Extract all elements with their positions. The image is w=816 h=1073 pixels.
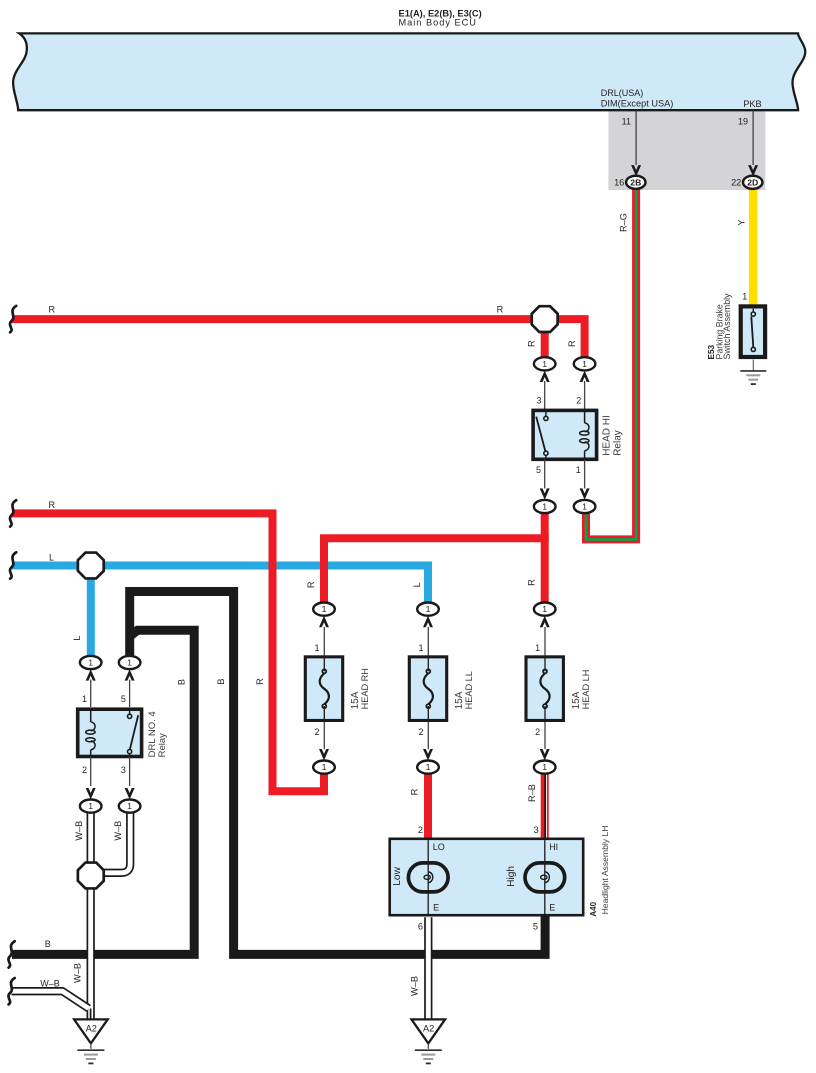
svg-text:1: 1: [542, 502, 547, 512]
svg-text:R: R: [497, 305, 504, 315]
svg-text:R–G: R–G: [618, 213, 628, 232]
svg-text:HEAD LH: HEAD LH: [581, 670, 591, 710]
svg-text:HEAD HI: HEAD HI: [602, 415, 613, 456]
svg-text:1: 1: [127, 801, 132, 811]
svg-text:DRL NO. 4: DRL NO. 4: [147, 711, 158, 757]
svg-text:2: 2: [535, 727, 540, 737]
svg-text:1: 1: [418, 643, 423, 653]
svg-text:E: E: [433, 903, 439, 913]
svg-text:3: 3: [534, 825, 539, 835]
svg-text:1: 1: [314, 643, 319, 653]
svg-text:1: 1: [542, 604, 547, 614]
svg-text:16: 16: [614, 177, 624, 187]
svg-text:6: 6: [418, 922, 423, 932]
svg-text:Y: Y: [736, 219, 746, 225]
svg-text:R: R: [255, 678, 265, 685]
svg-text:R: R: [527, 340, 537, 347]
svg-text:R–B: R–B: [527, 784, 537, 802]
svg-text:2B: 2B: [630, 177, 641, 187]
svg-text:2: 2: [418, 825, 423, 835]
svg-text:DRL(USA): DRL(USA): [601, 88, 644, 98]
svg-text:3: 3: [536, 396, 541, 406]
svg-text:Low: Low: [392, 866, 403, 885]
svg-text:1: 1: [426, 604, 431, 614]
svg-text:W–B: W–B: [113, 821, 123, 841]
svg-text:W–B: W–B: [40, 978, 60, 988]
svg-text:19: 19: [738, 116, 748, 126]
svg-text:2: 2: [418, 727, 423, 737]
svg-text:5: 5: [536, 465, 541, 475]
svg-text:B: B: [177, 679, 187, 685]
svg-text:2: 2: [314, 727, 319, 737]
svg-text:3: 3: [121, 765, 126, 775]
svg-text:A40: A40: [589, 901, 598, 916]
svg-text:R: R: [409, 788, 419, 795]
svg-text:1: 1: [88, 801, 93, 811]
svg-text:1: 1: [322, 762, 327, 772]
svg-text:1: 1: [582, 359, 587, 369]
svg-text:1: 1: [88, 658, 93, 668]
svg-text:Headlight Assembly LH: Headlight Assembly LH: [600, 826, 610, 915]
svg-text:Main Body ECU: Main Body ECU: [399, 17, 477, 27]
svg-text:R: R: [48, 305, 55, 315]
svg-text:1: 1: [576, 465, 581, 475]
svg-text:W–B: W–B: [72, 963, 82, 983]
svg-text:1: 1: [542, 762, 547, 772]
svg-text:2: 2: [576, 396, 581, 406]
svg-text:R: R: [306, 581, 316, 588]
svg-text:A2: A2: [423, 1024, 434, 1034]
svg-text:11: 11: [622, 116, 631, 126]
svg-text:A2: A2: [86, 1024, 97, 1034]
svg-text:L: L: [72, 635, 82, 640]
svg-text:B: B: [216, 678, 226, 684]
svg-text:1: 1: [127, 658, 132, 668]
svg-text:Relay: Relay: [157, 733, 168, 758]
svg-text:1: 1: [82, 694, 87, 704]
svg-text:B: B: [45, 939, 51, 949]
svg-text:22: 22: [731, 177, 741, 187]
svg-text:2: 2: [82, 765, 87, 775]
svg-text:DIM(Except USA): DIM(Except USA): [601, 98, 674, 108]
svg-text:Relay: Relay: [612, 430, 623, 456]
svg-text:1: 1: [322, 604, 327, 614]
svg-text:R: R: [527, 579, 537, 586]
svg-text:W–B: W–B: [74, 821, 84, 841]
svg-text:PKB: PKB: [743, 99, 761, 109]
svg-text:E: E: [549, 903, 555, 913]
svg-text:1: 1: [535, 643, 540, 653]
svg-text:HI: HI: [549, 842, 558, 852]
svg-text:W–B: W–B: [409, 976, 419, 996]
svg-text:L: L: [412, 582, 422, 587]
svg-text:HEAD RH: HEAD RH: [360, 668, 370, 709]
svg-text:L: L: [49, 552, 54, 562]
svg-text:5: 5: [121, 694, 126, 704]
svg-text:1: 1: [426, 762, 431, 772]
svg-text:Switch Assembly: Switch Assembly: [722, 293, 732, 360]
svg-text:R: R: [567, 340, 577, 347]
svg-text:LO: LO: [433, 842, 445, 852]
svg-text:HEAD LL: HEAD LL: [464, 671, 474, 709]
svg-text:High: High: [506, 866, 517, 887]
svg-text:2D: 2D: [747, 177, 758, 187]
svg-text:1: 1: [582, 502, 587, 512]
svg-text:5: 5: [533, 922, 538, 932]
svg-text:R: R: [48, 500, 55, 510]
svg-text:1: 1: [742, 291, 747, 301]
svg-text:1: 1: [542, 359, 547, 369]
